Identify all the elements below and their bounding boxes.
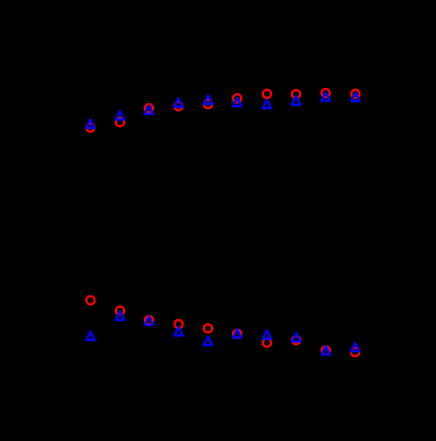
- marker circle top series point 5: [204, 100, 212, 108]
- marker triangle top series point 3: [145, 106, 153, 114]
- marker circle bottom series point 4: [174, 320, 182, 328]
- marker circle top series point 10: [351, 90, 359, 98]
- marker triangle top series point 10: [351, 93, 359, 101]
- marker triangle top series point 7: [263, 100, 271, 108]
- marker circle bottom series point 3: [145, 316, 153, 324]
- marker triangle top series point 1: [86, 120, 94, 128]
- marker triangle bottom series point 4: [174, 327, 182, 335]
- marker triangle bottom series point 3: [145, 317, 153, 325]
- marker triangle bottom series point 5: [204, 337, 212, 345]
- marker circle top series point 9: [321, 89, 329, 97]
- marker circle bottom series point 2: [116, 307, 124, 315]
- marker triangle top series point 6: [233, 98, 241, 106]
- marker circle top series point 7: [263, 90, 271, 98]
- marker triangle top series point 2: [116, 111, 124, 119]
- marker circle top series point 1: [86, 123, 94, 131]
- marker triangle bottom series point 2: [116, 312, 124, 320]
- marker triangle top series point 5: [204, 95, 212, 103]
- marker circle bottom series point 7: [263, 339, 271, 347]
- marker triangle bottom series point 6: [233, 329, 241, 337]
- marker triangle bottom series point 8: [292, 333, 300, 341]
- marker circle bottom series point 9: [322, 346, 330, 354]
- marker circle bottom series point 8: [292, 336, 300, 344]
- marker circle bottom series point 1: [86, 296, 94, 304]
- marker triangle top series point 8: [292, 96, 300, 104]
- marker circle top series point 3: [145, 104, 153, 112]
- marker circle top series point 8: [292, 90, 300, 98]
- marker circle bottom series point 6: [233, 330, 241, 338]
- marker triangle bottom series point 1: [86, 332, 94, 340]
- marker triangle bottom series point 7: [263, 330, 271, 338]
- marker circle top series point 6: [233, 94, 241, 102]
- marker triangle bottom series point 9: [322, 346, 330, 354]
- marker triangle bottom series point 10: [351, 343, 359, 351]
- marker circle bottom series point 10: [351, 348, 359, 356]
- marker circle top series point 4: [174, 102, 182, 110]
- marker triangle top series point 9: [321, 92, 329, 100]
- marker triangle top series point 4: [174, 98, 182, 106]
- marker circle top series point 2: [116, 118, 124, 126]
- marker circle bottom series point 5: [204, 324, 212, 332]
